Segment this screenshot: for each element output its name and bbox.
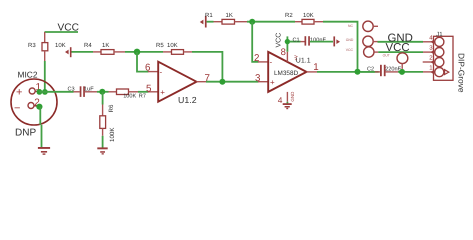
ground (mic): [38, 147, 50, 149]
pin 8 VCC stub: [286, 36, 288, 51]
pin 4 GND lead: [286, 92, 288, 102]
pin 1 pad: [435, 68, 444, 77]
svg-text:3: 3: [255, 73, 261, 84]
node C junction: [249, 19, 255, 25]
resistor R5: [163, 51, 172, 53]
wire A1 to R4: [72, 51, 94, 53]
svg-text:DIP-Grove: DIP-Grove: [456, 53, 466, 93]
wire output U1.2 to pin 3: [206, 81, 259, 83]
svg-text:4: 4: [278, 95, 283, 105]
svg-text:2: 2: [254, 53, 259, 64]
wire R4 to node A: [125, 51, 163, 53]
svg-text:-: -: [160, 67, 163, 76]
pad P3 (VCC): [364, 47, 374, 57]
svg-text:R5: R5: [156, 42, 164, 49]
wire node A down to pin 6: [137, 52, 149, 72]
pad P2 (GND): [363, 36, 373, 46]
wire R2 to output corner (feedback): [323, 22, 358, 72]
junction C2 out: [399, 69, 405, 75]
ground (U1.1 pin4): [283, 103, 292, 105]
svg-text:1K: 1K: [102, 42, 109, 49]
op-amp U1.1: [268, 52, 306, 92]
wire R7 to pin 5: [138, 91, 149, 93]
wire GND row: [378, 41, 424, 43]
svg-text:C3: C3: [68, 86, 75, 92]
resistor R6: [100, 116, 106, 129]
resistor R1: [222, 19, 235, 24]
svg-text:VCC: VCC: [386, 42, 410, 54]
svg-text:10K: 10K: [303, 12, 314, 19]
wire output U1.1 to C2 node: [317, 71, 375, 73]
testpoint circle column: pad P1 (NC): [363, 21, 373, 31]
wire R3 bottom lead: [44, 51, 46, 61]
junction output U1.2: [219, 79, 225, 85]
svg-text:+: +: [16, 86, 22, 98]
resistor R7: [109, 91, 117, 93]
svg-text:5: 5: [146, 83, 152, 94]
svg-text:−: −: [14, 103, 20, 115]
wire mic- down to ground: [39, 107, 41, 125]
pin arrow A2 (top row input): [200, 20, 204, 25]
wire VCC top-left: [45, 31, 79, 33]
connector J1 DIP-Grove: [434, 36, 454, 80]
op-amp U1.2: [158, 62, 196, 102]
junction output node: [355, 69, 361, 75]
svg-text:C1: C1: [293, 37, 300, 43]
svg-text:+: +: [160, 88, 165, 97]
pin 2 pad: [435, 58, 444, 67]
svg-text:VCC: VCC: [276, 33, 283, 48]
svg-text:GND: GND: [346, 38, 354, 42]
svg-text:DNP: DNP: [15, 128, 36, 139]
node A junction: [134, 49, 141, 56]
wire C3 to node B: [97, 91, 109, 93]
svg-text:R4: R4: [84, 42, 92, 49]
pin 3 lead: [258, 81, 268, 83]
svg-text:-: -: [270, 58, 273, 67]
pin 3 pad: [435, 48, 444, 57]
pin arrow A1 (unconnected input pin): [65, 50, 69, 55]
microphone MIC2: [11, 79, 57, 125]
pin arrow A3: [333, 36, 335, 46]
svg-text:1K: 1K: [226, 12, 233, 19]
svg-text:10K: 10K: [55, 42, 66, 49]
pin 2 NC stub of J1: [423, 61, 435, 63]
svg-text:R3: R3: [28, 42, 36, 49]
pin 1 lead of J1: [423, 71, 435, 73]
svg-text:R7: R7: [139, 93, 146, 99]
svg-text:+V: +V: [294, 55, 299, 61]
wire R5 to output (feedback): [192, 52, 222, 82]
svg-text:VCC: VCC: [58, 22, 80, 33]
svg-text:+: +: [270, 78, 275, 87]
pin 6 lead: [148, 71, 158, 73]
wire mic+ to C3: [40, 91, 74, 93]
svg-text:NC: NC: [348, 24, 353, 28]
pin 2 lead: [258, 61, 268, 63]
wire C2 to out pad node: [398, 71, 423, 73]
svg-text:LM358D: LM358D: [274, 70, 299, 77]
ground (R6): [97, 147, 107, 149]
wire C1 to pin arrow A3: [310, 41, 333, 43]
svg-text:VCC: VCC: [346, 48, 354, 52]
wire node C down to pin 2: [252, 22, 258, 62]
pin 1 output lead: [307, 71, 318, 73]
svg-text:U1.2: U1.2: [178, 95, 197, 105]
testpoint pad OUT (to C2): [397, 53, 408, 64]
svg-text:R1: R1: [205, 12, 213, 19]
resistor R2: [295, 21, 302, 23]
svg-text:GND: GND: [290, 91, 295, 102]
wire VCC row: [375, 51, 379, 53]
resistor R3: [42, 43, 48, 51]
node B junction: [99, 89, 105, 95]
svg-text:R6: R6: [108, 104, 115, 112]
svg-text:MIC2: MIC2: [18, 70, 38, 80]
resistor R4: [101, 50, 114, 55]
node mic+: [37, 89, 43, 95]
resistor R1? top lead of R3: [44, 32, 46, 43]
capacitor C3: [74, 91, 80, 93]
wire R1 to node C: [247, 21, 295, 23]
wire node B down to R6: [102, 92, 104, 105]
svg-text:10K: 10K: [167, 42, 178, 49]
svg-text:100K: 100K: [109, 127, 116, 142]
svg-text:100K: 100K: [123, 93, 136, 99]
pin 4 pad: [435, 37, 444, 46]
svg-text:6: 6: [145, 62, 151, 73]
node mic-: [36, 104, 42, 110]
svg-text:8: 8: [281, 47, 286, 58]
capacitor C1: [289, 41, 301, 43]
svg-text:OUT: OUT: [383, 53, 390, 57]
wire A2 to R1: [207, 21, 214, 23]
pin 7 output lead: [197, 81, 207, 83]
svg-text:R2: R2: [285, 12, 293, 19]
